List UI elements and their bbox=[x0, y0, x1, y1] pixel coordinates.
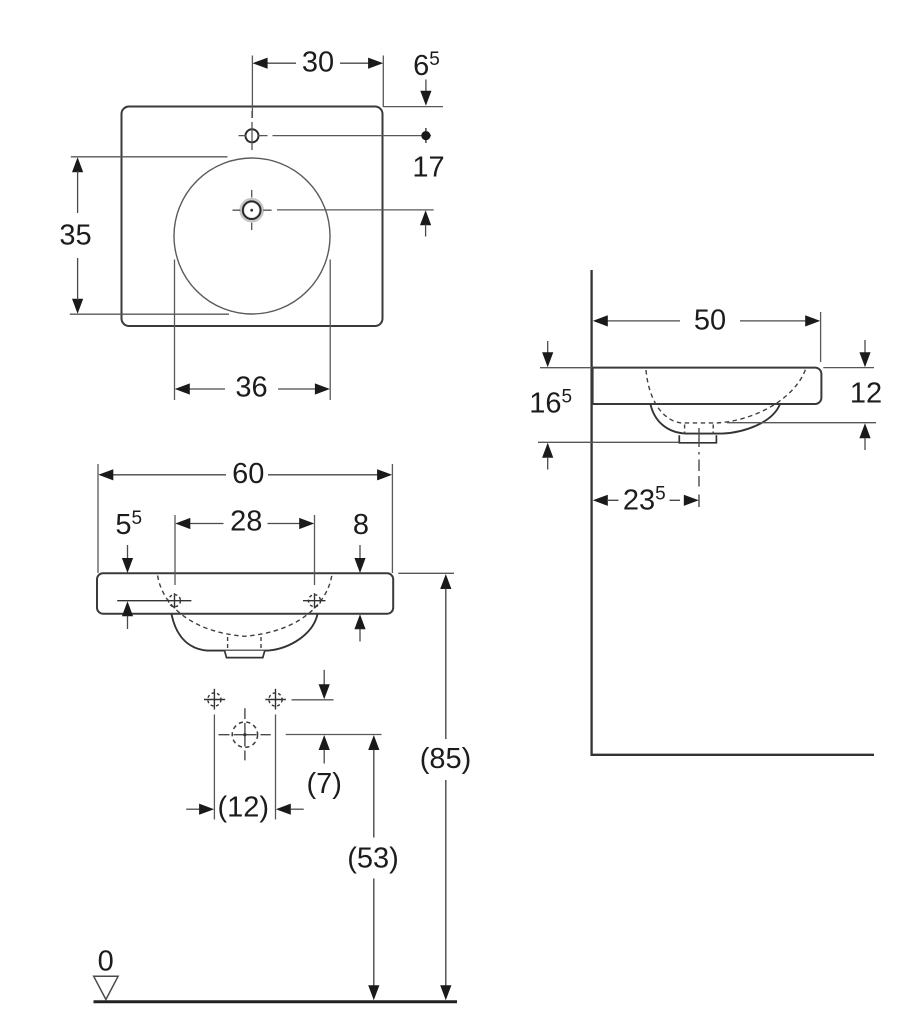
dim 23.5: left arrow bbox=[593, 495, 608, 506]
side view: slab outline bbox=[593, 368, 822, 404]
dim 30: extension line left bbox=[251, 56, 253, 119]
dim 50: right extension line bbox=[820, 312, 822, 362]
svg-text:60: 60 bbox=[232, 458, 264, 490]
dim 16.5: top extension line bbox=[540, 367, 592, 369]
dim 8: up arrow tail bbox=[359, 629, 361, 642]
dim 17: faucet line to right bbox=[273, 135, 432, 137]
floor line bbox=[94, 1000, 458, 1003]
dim 12: down arrow bbox=[859, 352, 870, 367]
dim 36: left extension line bbox=[174, 260, 176, 401]
dim 60: right arrow bbox=[377, 469, 392, 480]
dim 12: bottom line bbox=[727, 422, 876, 424]
dim (12): right extension line bbox=[275, 715, 277, 820]
top view: drain ring bbox=[243, 201, 261, 219]
dim 30: left arrow bbox=[253, 58, 268, 69]
dim 30: right arrow bbox=[368, 58, 383, 69]
dim 16.5: up arrow tail bbox=[547, 458, 549, 470]
front view: right fixing hole symbol bbox=[303, 593, 326, 608]
dim (85): slab top extension line bbox=[398, 572, 454, 574]
dim 60: dimension line bbox=[112, 474, 378, 476]
dim (12): right arrow (pointing left) bbox=[276, 804, 291, 815]
dim 50: dimension line bbox=[607, 320, 806, 322]
svg-text:8: 8 bbox=[353, 509, 369, 541]
front view: drain outlet trapezoid bbox=[225, 651, 265, 658]
dim 28: right arrow bbox=[299, 518, 314, 529]
top view: drain center dot bbox=[250, 209, 253, 212]
dim 12: up arrow tail bbox=[864, 438, 866, 450]
dim (85): up arrow bbox=[440, 574, 451, 589]
top view: basin circle bbox=[174, 158, 330, 314]
dim 36: dimension line bbox=[189, 388, 316, 390]
dim 28: left extension line bbox=[174, 515, 176, 585]
side view: visible bowl outline bbox=[651, 404, 780, 433]
front view: drain hidden edges (dashed) bbox=[228, 637, 261, 650]
dim 35: bottom extension line bbox=[70, 313, 229, 315]
dim 16.5: down arrow tail bbox=[547, 341, 549, 353]
dim (53): up arrow bbox=[368, 735, 379, 750]
dim (7): fixing line right stub bbox=[292, 699, 334, 701]
dim 50: left arrow bbox=[593, 315, 608, 326]
dim 36: left arrow bbox=[175, 383, 190, 394]
dim 36: right arrow bbox=[315, 383, 330, 394]
svg-text:17: 17 bbox=[412, 152, 444, 184]
dim 60: left extension line bbox=[97, 464, 99, 573]
front view: drain hole (dashed circle) bbox=[232, 722, 257, 747]
dim 35: down arrow bbox=[72, 299, 83, 314]
dim 5.5: down arrow bbox=[122, 558, 133, 573]
dim (12): left arrow (pointing right) bbox=[199, 804, 214, 815]
dim (85): dimension line bbox=[445, 589, 447, 987]
svg-text:35: 35 bbox=[59, 220, 91, 252]
dim 60: right extension line bbox=[391, 464, 393, 573]
dim 60: left arrow bbox=[98, 469, 113, 480]
dim 23.5: dimension line bbox=[608, 499, 680, 501]
dim 28: left arrow bbox=[175, 518, 190, 529]
dim 5.5: down arrow tail bbox=[127, 545, 129, 560]
dim 16.5: bottom line bbox=[538, 441, 679, 443]
front view: left fixing hole symbol bbox=[117, 593, 191, 608]
dim 30: dimension line bbox=[266, 62, 370, 64]
front view: drain level line bbox=[286, 734, 382, 736]
svg-text:(12): (12) bbox=[218, 792, 270, 824]
dim 17: end dot bbox=[421, 131, 430, 140]
top view: drain horizontal centerline bbox=[233, 209, 272, 211]
dim (7): down arrow tail bbox=[323, 670, 325, 685]
dim 17: drain line to right bbox=[277, 209, 434, 211]
front view: countertop slab outline bbox=[97, 573, 393, 613]
front view: left wall-hole symbol bbox=[204, 689, 225, 710]
dim 12: up arrow bbox=[859, 423, 870, 438]
dim 17: up arrow tail bbox=[425, 225, 427, 237]
side view: drain outlet trapezoid bbox=[679, 435, 716, 443]
dim (7): down arrow bbox=[319, 684, 330, 699]
side view: drain hidden edges (dashed) bbox=[685, 425, 714, 435]
dim 17: dot tick bbox=[425, 128, 427, 143]
dim 28: dimension line bbox=[190, 523, 301, 525]
svg-text:(7): (7) bbox=[306, 768, 341, 800]
front view: drain hole center dot bbox=[243, 733, 246, 736]
dim (85): down arrow bbox=[440, 985, 451, 1000]
dim 17: up arrow bbox=[420, 210, 431, 225]
svg-text:(85): (85) bbox=[420, 743, 472, 775]
svg-text:30: 30 bbox=[302, 47, 334, 79]
dim (53): down arrow bbox=[368, 985, 379, 1000]
dim 35: up arrow bbox=[72, 157, 83, 172]
top view: drain vertical centerline bbox=[251, 190, 253, 230]
side view: hidden basin rim (dashed) bbox=[646, 369, 806, 423]
dim (53): dimension line bbox=[373, 750, 375, 987]
dim 36: right extension line bbox=[329, 260, 331, 401]
top view: washbasin outline bbox=[122, 107, 383, 327]
dim 16.5: down arrow bbox=[542, 352, 553, 367]
dim 8: down arrow tail bbox=[359, 545, 361, 560]
dim 50: right arrow bbox=[805, 315, 820, 326]
front view: drain hole vertical centerline bbox=[244, 708, 246, 760]
svg-text:28: 28 bbox=[230, 506, 262, 538]
svg-text:50: 50 bbox=[694, 305, 726, 337]
dim (12): right arrow tail bbox=[290, 808, 303, 810]
top view: faucet hole bbox=[246, 129, 259, 142]
dim 28: right extension line bbox=[314, 515, 316, 585]
dim 8: down arrow bbox=[354, 558, 365, 573]
svg-text:(53): (53) bbox=[347, 842, 399, 874]
datum: triangle bbox=[94, 976, 118, 999]
dim (7): up arrow tail bbox=[323, 750, 325, 764]
dim 6.5: extension line from sink top edge bbox=[384, 106, 444, 108]
top view: faucet hole horizontal centerline bbox=[239, 135, 268, 137]
dim 35: top extension line bbox=[71, 156, 228, 158]
dim 35: dimension line bbox=[77, 171, 79, 300]
svg-text:12: 12 bbox=[850, 378, 882, 410]
dim 16.5: up arrow bbox=[542, 443, 553, 458]
dim (12): left arrow tail bbox=[186, 808, 200, 810]
dim 12: down arrow tail bbox=[864, 340, 866, 353]
front view: hidden basin rim (dashed) bbox=[158, 576, 332, 637]
front view: right wall-hole symbol bbox=[265, 689, 286, 710]
dim 5.5: up arrow bbox=[122, 601, 133, 616]
dim 6.5: down arrow bbox=[420, 91, 431, 106]
front view: drain hole horizontal centerline bbox=[219, 734, 271, 736]
top view: drain gray halo bbox=[242, 200, 262, 220]
side view: wall line bbox=[590, 270, 592, 756]
dim 6.5: arrow tail bbox=[425, 80, 427, 93]
svg-text:0: 0 bbox=[98, 946, 114, 978]
side view: drain axis (dash-dot) bbox=[698, 428, 700, 507]
front view: visible bowl outline bbox=[172, 614, 318, 650]
dim (7): up arrow bbox=[319, 735, 330, 750]
svg-text:36: 36 bbox=[235, 372, 267, 404]
dim 23.5: right arrow bbox=[684, 495, 699, 506]
side view: wall bottom line bbox=[591, 754, 875, 756]
top view: faucet hole vertical centerline bbox=[251, 111, 253, 150]
dim (12): left extension line bbox=[213, 715, 215, 820]
dim 12: slab-top extension line bbox=[823, 367, 874, 369]
dim 30: extension line right bbox=[382, 56, 384, 108]
dim 8: up arrow bbox=[354, 614, 365, 629]
dim 5.5: up arrow tail bbox=[127, 616, 129, 629]
